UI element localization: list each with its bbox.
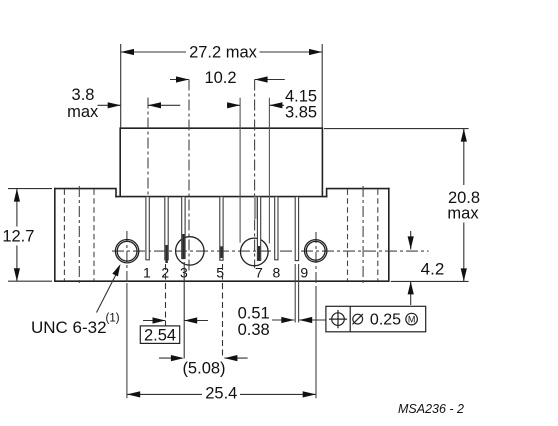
right screw hole centerline [315,232,317,287]
dimension texts [2,44,480,403]
ext: pin2 dashed, pin3 solid, pin5 dashed [165,264,167,326]
pin3/hole centerline [188,80,190,272]
svg-text:9: 9 [300,264,308,280]
2.54 [153,317,166,323]
svg-text:10.2: 10.2 [204,69,236,87]
svg-text:12.7: 12.7 [2,228,34,246]
package body outline [55,128,389,281]
27.2 ext lines [121,44,323,128]
25.4 [127,391,140,397]
UNC leader arrowhead [112,264,120,276]
flange hidden slot lines left [64,186,94,285]
12.7 ext + dim [8,189,52,282]
2.54 arrows [143,320,208,322]
svg-text:25.4: 25.4 [205,384,237,402]
arrowheads [14,49,467,398]
svg-text:5: 5 [216,264,224,280]
3.8 [108,102,121,108]
dark lead tips [165,234,260,263]
svg-text:8: 8 [273,264,281,280]
pin9 extension lines [295,264,298,323]
svg-text:4.2: 4.2 [421,260,445,279]
pin number labels [143,264,308,280]
4.2 [408,236,414,249]
pin 5 [220,197,223,261]
4.15 arrows tails [227,104,284,106]
UNC screw hole [115,240,138,263]
svg-text:max: max [447,205,479,223]
pin 9 [295,197,298,261]
right screw hole [305,240,327,262]
25.4 dim [127,393,316,395]
pin7/hole centerline [254,80,256,269]
svg-text:0.38: 0.38 [238,321,270,339]
hole at pin 3 [176,237,204,265]
svg-text:(1): (1) [106,313,120,325]
leads [146,197,299,261]
hole at pin 7 [241,238,269,266]
pin 2 [165,197,168,260]
horizontal centerline through holes [112,250,429,252]
diameter symbol [353,314,363,324]
3.8 arrows tails [98,104,181,106]
20.8 ext + dim [324,129,469,282]
svg-text:27.2 max: 27.2 max [189,44,258,62]
wide lead edge lines pin7 [240,98,269,244]
20.8 [461,129,467,142]
UNC leader [97,274,117,313]
12.7 [14,189,20,202]
svg-text:0.25: 0.25 [370,312,401,329]
left screw hole centerline [126,231,128,283]
pin 3 [182,197,185,259]
svg-text:M: M [408,314,416,324]
svg-text:0.51: 0.51 [238,305,270,323]
circles [115,237,327,266]
4.2 arrows [410,231,412,305]
GD&T feature control frame [326,306,426,332]
27.2 [121,49,134,55]
0.51/0.38 arrows [272,319,326,321]
27.2 dim line [121,51,323,53]
pin 8 [275,197,278,260]
10.2 [176,76,189,82]
pin 7 [257,197,260,261]
pin 1 [146,197,149,260]
svg-text:3.8: 3.8 [72,86,95,104]
pin1 centerline [147,98,149,197]
vertical centerlines [127,80,316,399]
0.51/0.38 [281,317,294,323]
svg-text:max: max [67,103,99,121]
svg-text:1: 1 [143,264,151,280]
5.08 [171,355,184,361]
svg-text:2.54: 2.54 [144,326,176,344]
circled M [406,313,418,325]
svg-text:MSA236 - 2: MSA236 - 2 [398,402,464,416]
svg-text:7: 7 [255,264,263,280]
position symbol [332,313,345,326]
gray stub band [254,197,257,220]
2.54 box [140,326,179,344]
4.15 [227,102,240,108]
flange hidden slot lines right [348,186,378,285]
svg-text:UNC 6-32: UNC 6-32 [31,318,107,337]
svg-text:3.85: 3.85 [285,104,317,122]
10.2 arrows tails [170,79,285,81]
5.08 arrows [159,357,248,359]
svg-text:(5.08): (5.08) [182,360,225,378]
